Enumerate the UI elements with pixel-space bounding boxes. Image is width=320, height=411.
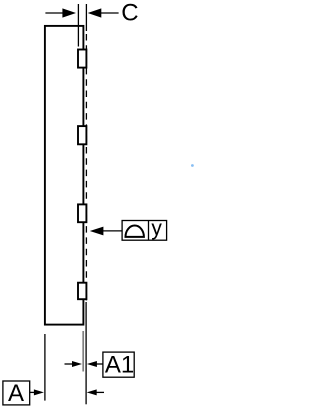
feature control frame box [122, 221, 167, 241]
lead 4 [78, 283, 86, 300]
svg-text:y: y [151, 217, 162, 240]
lead 3 [78, 204, 86, 222]
label A1 box [103, 352, 134, 377]
extension line (lead right face, dim C) [85, 4, 87, 31]
package body [45, 26, 84, 325]
lead 1 [78, 50, 86, 68]
stray blue speck [191, 164, 194, 167]
dimension A left arrow (points right) [30, 391, 36, 393]
dimension C right arrow [100, 12, 119, 14]
extension line (body left face, dim A) [44, 334, 46, 401]
lead 2 [78, 126, 86, 144]
profile of surface symbol [126, 226, 144, 237]
dimension A1 right arrow (points left) [96, 363, 103, 365]
svg-text:C: C [121, 0, 138, 27]
svg-text:A1: A1 [105, 352, 134, 379]
dimension C left arrow [45, 12, 64, 14]
svg-text:A: A [8, 380, 24, 407]
dashed center line (lead face datum) [85, 34, 87, 302]
dimension A right arrow (points left) [96, 391, 104, 393]
extension line (lead face, bottom, dims A1/A) [85, 302, 87, 404]
extension line gray (body right face, dim A1) [82, 331, 84, 372]
label A box [3, 381, 30, 405]
dimension A1 left arrow (points right) [65, 363, 74, 365]
extension line (lead left face, dim C) [77, 4, 79, 47]
coplanarity leader arrow [103, 230, 123, 232]
